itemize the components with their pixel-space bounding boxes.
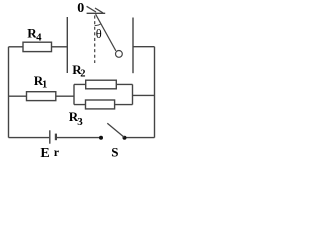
svg-text:θ: θ	[96, 27, 102, 41]
svg-text:0: 0	[77, 1, 84, 16]
svg-text:S: S	[111, 145, 118, 160]
svg-text:1: 1	[42, 80, 47, 91]
svg-text:r: r	[54, 145, 60, 159]
svg-text:2: 2	[80, 69, 85, 80]
svg-text:4: 4	[36, 32, 42, 43]
svg-text:3: 3	[77, 116, 83, 128]
svg-text:E: E	[40, 146, 49, 161]
